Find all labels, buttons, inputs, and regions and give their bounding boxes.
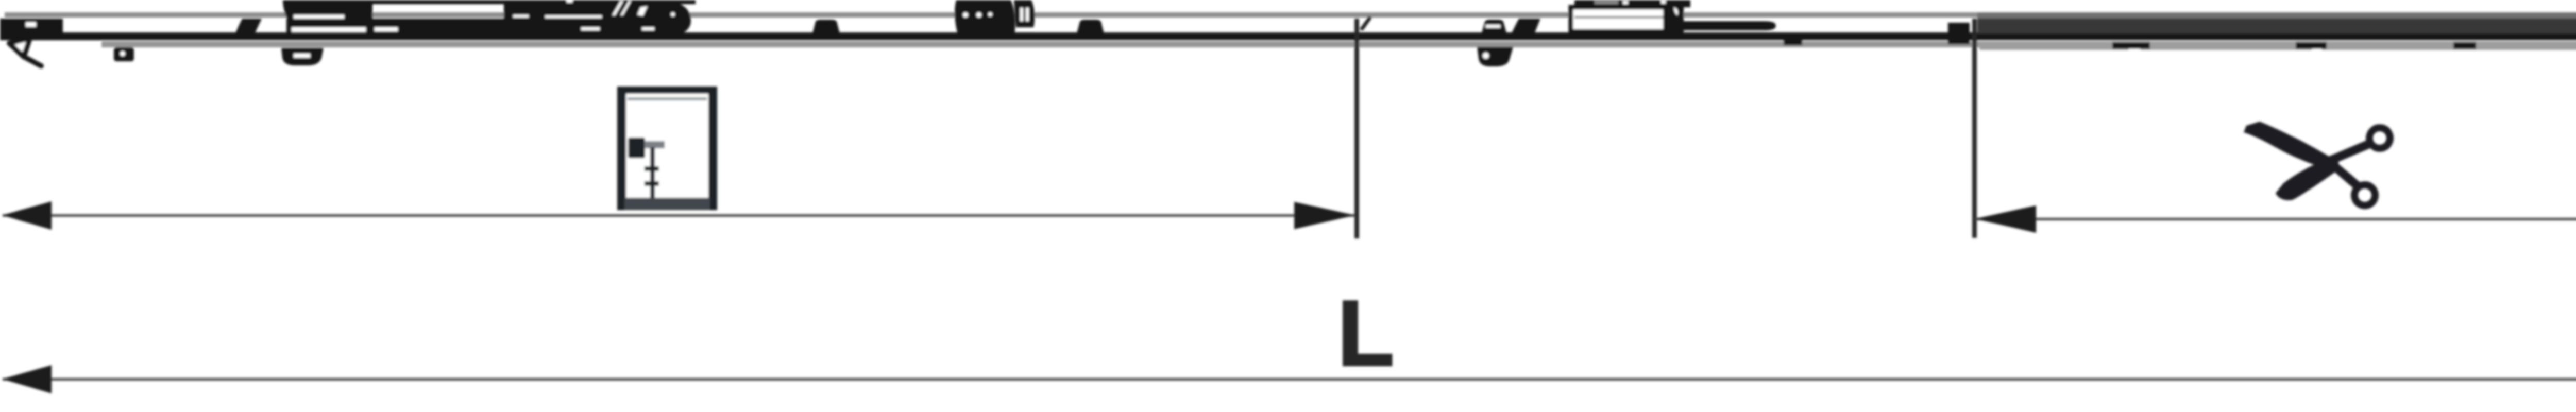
svg-text:L: L bbox=[1337, 282, 1394, 385]
